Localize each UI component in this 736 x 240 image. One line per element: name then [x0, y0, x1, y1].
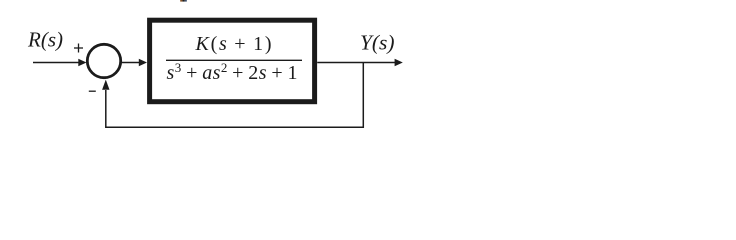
minus sign at summing junction	[89, 90, 96, 92]
summing junction circle	[87, 44, 120, 77]
wire feedback loop	[102, 63, 363, 128]
wire block to output	[317, 59, 403, 66]
svg-text:K(s + 1): K(s + 1)	[195, 33, 272, 55]
wire input to summing junction	[33, 59, 87, 66]
plus sign at summing junction	[74, 44, 83, 53]
block G(s) transfer function box	[150, 20, 315, 102]
stray mark (cut-off text at top edge)	[180, 0, 187, 2]
svg-text:R(s): R(s)	[27, 28, 63, 52]
svg-text:Y(s): Y(s)	[360, 31, 395, 55]
svg-text:s3 + as2 + 2s + 1: s3 + as2 + 2s + 1	[167, 60, 298, 84]
wire summing junction to block	[121, 59, 147, 66]
fraction bar	[166, 59, 302, 61]
